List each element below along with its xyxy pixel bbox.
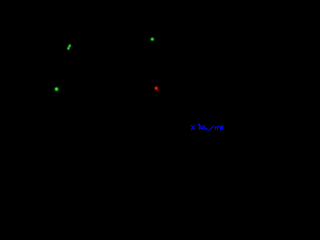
- signature second word: [215, 126, 219, 129]
- green light dot lower-left: [55, 87, 59, 91]
- red light core: [155, 87, 157, 89]
- signature letter X: [191, 126, 194, 130]
- signature word with tall ascender: [198, 124, 200, 130]
- blue signature watermark bottom-right: [191, 124, 223, 131]
- green light dash upper-left: [67, 45, 71, 50]
- signature slash: [209, 126, 214, 131]
- red light dot lower-right: [155, 87, 159, 92]
- green light dot upper-right: [151, 38, 154, 41]
